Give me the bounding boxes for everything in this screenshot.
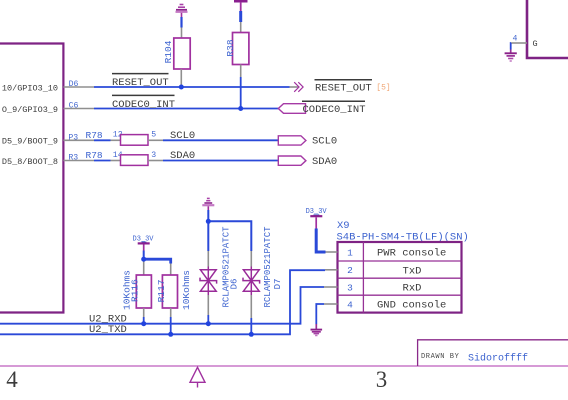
svg-text:R78: R78: [86, 130, 103, 141]
sheet bottom border: [0, 365, 568, 367]
resistor R78a body: [121, 135, 149, 146]
wire R116 to U2_RXD: [143, 317, 145, 324]
svg-text:P3: P3: [68, 133, 78, 142]
svg-text:R104: R104: [163, 40, 174, 63]
revision triangle marker: [190, 367, 205, 387]
svg-text:D6: D6: [229, 279, 239, 290]
svg-text:O_9/GPIO3_9: O_9/GPIO3_9: [2, 105, 58, 115]
svg-text:10/GPIO3_10: 10/GPIO3_10: [2, 83, 58, 93]
pin 3 R78: [148, 151, 163, 161]
svg-text:3: 3: [347, 282, 353, 293]
pin R116 top: [143, 259, 145, 275]
pin D6 bottom: [207, 295, 209, 315]
off-page flag SCL0 (right-pointing): [278, 136, 306, 145]
resistor R116: [129, 275, 151, 308]
resistor R78b body: [121, 155, 149, 166]
svg-text:D7: D7: [273, 279, 283, 290]
wire D6 to U2_RXD: [207, 315, 209, 324]
pin R116 bottom: [143, 308, 145, 317]
pin R117 bottom: [170, 308, 172, 317]
junction D3_3V / R116 node: [141, 257, 146, 262]
svg-text:D5_8/BOOT_8: D5_8/BOOT_8: [2, 157, 58, 167]
svg-text:10Kohms: 10Kohms: [181, 270, 192, 310]
wire net SDA0 (R3 row): [94, 160, 111, 162]
pin D7 top: [250, 251, 252, 267]
svg-text:RxD: RxD: [403, 283, 422, 295]
wire R38 to CODEC0_INT: [240, 77, 242, 109]
wire net CODEC0_INT (C6 row): [94, 108, 278, 110]
IC U? box (left edge, partially cropped): [0, 44, 63, 313]
wire pin4 to ground (top right): [510, 43, 512, 50]
wire ground to R104: [180, 17, 182, 28]
TVS diode D7 (RCLAMP0521PATCT): [243, 267, 260, 296]
pin R38 top: [240, 22, 242, 33]
wire power to R38 (thick): [239, 11, 242, 22]
svg-text:R78: R78: [86, 150, 103, 161]
off-page chevron RESET_OUT: [294, 82, 303, 92]
svg-text:1: 1: [347, 247, 353, 258]
pin 2 X9 TxD: [325, 265, 421, 277]
pin R38 bottom: [240, 65, 242, 78]
pin 12 R78: [111, 131, 123, 141]
svg-text:R3: R3: [68, 154, 78, 163]
wire net RESET_OUT (D6 row): [94, 86, 298, 88]
svg-text:U2_TXD: U2_TXD: [89, 324, 127, 336]
net label RESET_OUT (on wire, with overline): [112, 74, 169, 90]
connector X9 body: [338, 242, 462, 313]
pin 4 (top right IC): [511, 34, 538, 49]
wire across to R117 (thick): [144, 259, 171, 263]
wire ground to junction: [207, 210, 209, 221]
power bar (top, cropped) above R38: [234, 1, 248, 11]
ground (earth) at X9 pin4: [311, 324, 323, 336]
svg-text:RCLAMP0521PATCT: RCLAMP0521PATCT: [263, 226, 273, 308]
svg-text:3: 3: [376, 367, 388, 392]
pin C6 (IC): [2, 101, 94, 114]
pin 5 R78: [148, 131, 163, 141]
wire SDA0 to flag: [163, 160, 278, 162]
wire SCL0 to flag: [163, 139, 278, 141]
net label CODEC0_INT (on wire, with overline): [112, 95, 175, 110]
svg-text:CODEC0_INT: CODEC0_INT: [112, 99, 175, 111]
svg-text:X9: X9: [337, 220, 350, 232]
svg-text:SCL0: SCL0: [312, 136, 337, 148]
svg-text:GND console: GND console: [377, 300, 446, 312]
junction U2_RXD / R116: [141, 321, 146, 326]
svg-text:RESET_OUT: RESET_OUT: [112, 77, 169, 89]
ground (earth, inverted) above D6: [202, 198, 214, 210]
svg-text:C6: C6: [69, 101, 79, 110]
wire junction down to D6: [207, 221, 209, 251]
pin 3 X9 RxD: [324, 282, 421, 294]
ground (earth) top right: [505, 50, 517, 62]
svg-text:SDA0: SDA0: [312, 156, 337, 168]
svg-text:10Kohms: 10Kohms: [121, 270, 132, 310]
svg-text:2: 2: [347, 265, 353, 276]
junction RESET_OUT / R104 node: [179, 85, 184, 90]
pin 1 X9 PWR console: [326, 247, 447, 259]
title block frame: [418, 340, 568, 366]
IC box (top right, partially cropped): [527, 0, 568, 58]
pin R117 top: [170, 264, 172, 276]
junction U2_TXD / R117: [168, 332, 173, 337]
svg-text:4: 4: [347, 299, 353, 310]
svg-text:RCLAMP0521PATCT: RCLAMP0521PATCT: [222, 226, 232, 308]
svg-text:RESET_OUT: RESET_OUT: [315, 82, 372, 94]
svg-text:4: 4: [6, 367, 18, 392]
off-page flag SDA0 (right-pointing): [278, 156, 306, 165]
wire R117 to U2_TXD: [170, 317, 172, 334]
junction U2_RXD / D6: [206, 321, 211, 326]
svg-text:4: 4: [513, 34, 518, 43]
pin R3 (IC): [2, 154, 94, 167]
svg-text:3: 3: [151, 151, 156, 160]
svg-text:PWR console: PWR console: [377, 248, 446, 260]
wire D7 to U2_TXD: [250, 318, 252, 334]
power symbol D3_3V (above R116): [133, 235, 155, 250]
pin D6 (IC): [2, 80, 94, 93]
svg-text:R38: R38: [225, 39, 236, 56]
off-page flag CODEC0_INT (left-pointing tag): [278, 104, 305, 114]
wire junction to D7 branch: [208, 221, 251, 251]
wire X9 pin4 to ground: [316, 304, 324, 324]
svg-text:Sidoroffff: Sidoroffff: [468, 352, 528, 364]
pin P3 (IC): [2, 133, 94, 146]
svg-text:CODEC0_INT: CODEC0_INT: [303, 104, 366, 116]
pin 14 R78: [111, 151, 123, 161]
off-page label CODEC0_INT: [302, 101, 366, 116]
wire D3_3V to X9 pin1 (thick): [316, 229, 325, 253]
svg-text:G: G: [533, 39, 538, 49]
wire net U2_TXD: [0, 270, 325, 336]
svg-text:R117: R117: [156, 280, 167, 303]
svg-text:D5_9/BOOT_9: D5_9/BOOT_9: [2, 137, 58, 147]
svg-text:5: 5: [151, 131, 156, 140]
wire net U2_RXD: [0, 287, 324, 325]
wire net SCL0 (P3 row): [94, 139, 111, 141]
off-page label RESET_OUT [5]: [315, 80, 391, 95]
TVS diode D6 (RCLAMP0521PATCT): [200, 267, 217, 296]
pin R104 bottom: [180, 69, 182, 87]
junction CODEC0_INT / R38 node: [238, 106, 243, 111]
ground (earth, inverted) above R104: [176, 5, 188, 18]
pin R104 top: [181, 28, 183, 39]
resistor R104: [163, 38, 190, 69]
resistor R38: [225, 33, 249, 65]
wire D3_3V down: [143, 251, 145, 260]
svg-text:DRAWN BY: DRAWN BY: [421, 353, 460, 361]
svg-text:D6: D6: [69, 80, 79, 89]
pin D6 top: [207, 251, 209, 267]
junction U2_TXD / D7: [249, 332, 254, 337]
power symbol D3_3V (at X9 pin1): [306, 208, 328, 229]
junction TVS top ground node: [206, 219, 211, 224]
svg-text:[5]: [5]: [376, 84, 390, 93]
resistor R117: [156, 275, 178, 308]
svg-text:TxD: TxD: [403, 265, 422, 277]
pin D7 bottom: [250, 295, 252, 318]
pin 4 X9 GND console: [324, 299, 446, 311]
